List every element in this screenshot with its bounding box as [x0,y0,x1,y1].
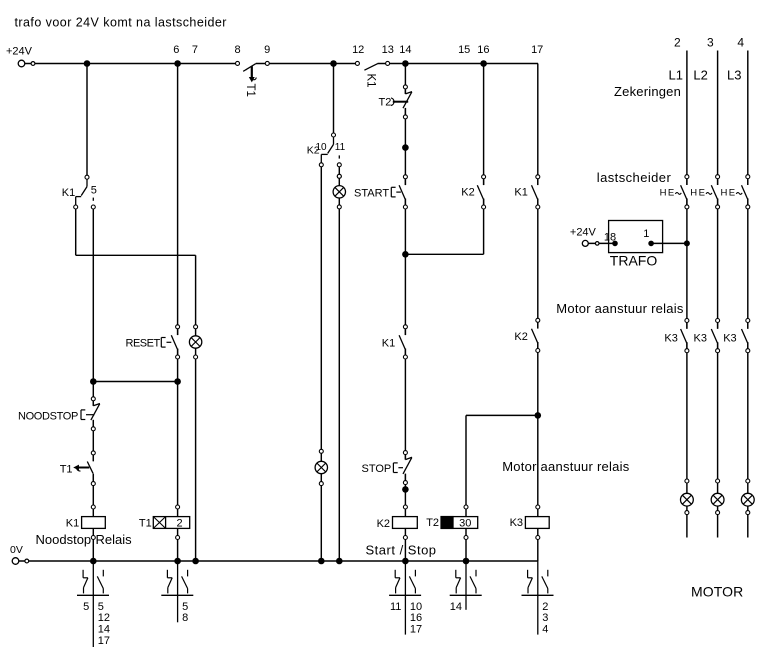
junction trafo-L1 [684,240,690,246]
svg-text:L3: L3 [727,68,741,83]
svg-text:START: START [354,187,389,199]
junction top rail x=405.4 [402,60,409,67]
trafo pin 18 dot [612,241,618,247]
svg-text:H: H [690,188,697,199]
svg-text:+24V: +24V [6,45,33,57]
svg-text:5: 5 [83,601,89,613]
contact K3 phase 1 [681,319,689,353]
svg-text:7: 7 [192,44,198,56]
junction bottom rail x=321.3 [318,558,325,565]
svg-text:11: 11 [335,142,346,153]
svg-text:13: 13 [382,44,394,56]
motor lamp L2 [711,479,724,515]
lamp branch-10 [315,449,327,485]
pushbutton symbol START [391,187,401,197]
svg-text:E: E [729,188,735,199]
svg-text:3: 3 [707,35,714,49]
svg-text:3: 3 [542,612,548,624]
junction noodstop/reset right [174,378,181,385]
svg-text:E: E [668,188,674,199]
svg-text:10: 10 [316,142,328,153]
svg-text:14: 14 [98,624,110,636]
lastscheider HE~ symbol [660,188,682,199]
svg-text:T1: T1 [244,84,256,97]
junction bottom rail x=466 [463,558,470,565]
junction bottom rail x=405.4 [402,558,409,565]
svg-text:16: 16 [477,44,489,56]
svg-text:17: 17 [531,44,543,56]
svg-text:0V: 0V [10,544,23,556]
svg-text:11: 11 [390,601,401,613]
contact K3 phase 2 [711,319,719,353]
svg-text:5: 5 [91,184,97,196]
svg-text:5: 5 [182,601,188,613]
svg-text:14: 14 [450,601,462,613]
svg-text:E: E [699,188,705,199]
pushbutton symbol STOP [393,463,403,473]
contact K1 on rail (nodes 12-13) [355,61,389,70]
svg-text:14: 14 [399,44,411,56]
contact NOODSTOP (NC pushbutton) [91,397,100,431]
svg-text:4: 4 [542,624,548,636]
wire: main noodstop column x=93.3 [92,207,94,561]
wire: horizontal y=415.4 to T2 coil [466,414,538,416]
svg-text:12: 12 [352,44,364,56]
svg-text:T1: T1 [139,518,152,530]
lastscheider switch L2 [711,175,719,209]
contact K3 phase 3 [742,319,750,353]
contact mirror K1 [77,561,110,647]
svg-text:RESET: RESET [126,338,161,350]
svg-text:12: 12 [98,612,110,624]
lastscheider HE~ symbol [721,188,743,199]
relay coil K1 [82,505,106,540]
contact K2 holding (NO) [477,175,485,209]
contact mirror K3 [522,561,554,636]
motor lamp L1 [681,479,694,515]
TRAFO box [609,221,663,253]
svg-text:NOODSTOP: NOODSTOP [18,410,78,422]
terminal 0V left [12,558,19,565]
wire: branch10 column x=321.3 [320,165,322,561]
svg-text:Relais: Relais [96,532,133,547]
junction bottom rail x=93.3 [90,558,97,565]
svg-text:17: 17 [410,624,422,636]
trafo pin 1 dot [648,241,654,247]
changeover contact K2 10/11 [319,133,341,167]
svg-text:Noodstop: Noodstop [36,532,92,547]
svg-text:K1: K1 [365,74,377,88]
wire: T2 coil column x=466 [465,415,467,561]
svg-text:18: 18 [604,232,616,244]
junction noodstop/reset left [90,378,97,385]
junction top rail x=87 [84,60,91,67]
lastscheider switch L1 [681,175,689,209]
wire: +24V top rail [25,63,538,65]
wire: column node6 x=177.5 [177,64,179,562]
svg-text:16: 16 [410,612,422,624]
svg-text:TRAFO: TRAFO [610,253,658,269]
wire: phase L2 [717,51,719,538]
extra terminal + lamp on branch 11 [337,174,341,178]
junction dot isolated on start column [402,144,409,151]
T2 delay cup symbol [391,98,408,106]
svg-text:2: 2 [542,601,548,613]
svg-text:K1: K1 [66,518,79,530]
svg-text:+24V: +24V [570,227,597,239]
junction top rail x=333.5 [330,60,337,67]
svg-text:1: 1 [643,228,649,240]
svg-text:2: 2 [674,35,681,49]
wire: horizontal y=254.3 [405,253,483,255]
svg-text:K1: K1 [62,187,75,199]
svg-text:9: 9 [264,44,270,56]
svg-text:8: 8 [182,612,188,624]
svg-text:H: H [660,188,667,199]
wire: K1 fork feed x=87 [86,64,88,178]
svg-text:Zekeringen: Zekeringen [614,84,681,99]
junction K2/T2 feed [535,412,542,419]
lastscheider HE~ symbol [690,188,712,199]
wire: right column x=537.8 [537,64,539,562]
pushbutton symbol NOODSTOP [81,410,95,420]
svg-text:6: 6 [173,44,179,56]
svg-text:MOTOR: MOTOR [691,583,743,599]
wire: branch11 column x=339.3 [338,165,340,561]
pushbutton symbol RESET [161,338,171,348]
junction top rail x=177.6 [174,60,181,67]
wire: phase L1 [686,51,688,538]
svg-text:K3: K3 [723,333,736,345]
wire: horizontal y=381.5 reset join [93,381,177,383]
svg-text:30: 30 [459,518,471,530]
svg-text:K3: K3 [694,333,707,345]
wire: K2 fork feed x=333.5 [333,64,335,136]
changeover contact K1 / 5 [74,175,96,209]
lastscheider switch L3 [742,175,750,209]
wire: K2 holding branch x=483.6 [483,64,485,255]
contact START (NO pushbutton) [399,175,407,209]
svg-text:STOP: STOP [362,463,392,475]
contact mirror T1 [161,561,193,624]
timer coil T1 with box 2 [153,505,189,540]
svg-text:Motor aanstuur relais: Motor aanstuur relais [502,459,630,474]
contact T1 on rail (nodes 8-9, delayed) [236,61,270,81]
svg-text:T2: T2 [426,517,439,529]
wire: horizontal y=255.3 to lamp column [76,254,196,256]
wire: start/stop column x=405.4 [404,64,406,562]
terminal +24V left [18,60,25,67]
svg-text:5: 5 [98,601,104,613]
svg-text:Motor aanstuur relais: Motor aanstuur relais [556,301,684,316]
svg-text:K2: K2 [514,331,527,343]
svg-text:T1: T1 [60,463,73,475]
wire trafo output to L1 [651,242,687,244]
junction start/holding [402,251,409,258]
contact T2 (NC off-delay) [403,85,412,119]
svg-text:K3: K3 [664,333,677,345]
svg-text:L1: L1 [669,68,683,83]
relay coil K3 [525,505,549,540]
svg-text:H: H [721,188,728,199]
contact RESET (NO pushbutton) [171,325,179,359]
svg-text:K1: K1 [514,187,527,199]
wire: lamp column x=195.6 [195,255,197,561]
junction bottom rail x=339.3 [336,558,343,565]
junction dot below STOP [402,486,409,493]
trafo terminal +24V [588,242,615,244]
lamp reset-indicator [189,325,201,359]
svg-text:trafo voor 24V komt na lastsch: trafo voor 24V komt na lastscheider [15,15,227,29]
junction top rail x=483.6 [480,60,487,67]
lamp start-indicator [333,174,345,209]
contact mirror K2 [389,561,422,636]
svg-text:K1: K1 [382,338,395,350]
svg-text:10: 10 [410,601,422,613]
contact K1 middle (NO) [399,325,407,359]
svg-text:L2: L2 [693,68,707,83]
svg-text:8: 8 [234,44,240,56]
svg-text:15: 15 [458,44,470,56]
junction bottom rail x=195.6 [192,558,199,565]
wire: K1-NC branch x=75.7 down [75,207,77,256]
svg-text:K3: K3 [510,517,523,529]
svg-text:K2: K2 [461,187,474,199]
contact K2 right (NO) [532,318,540,352]
svg-text:17: 17 [98,635,110,647]
svg-text:Start / Stop: Start / Stop [366,542,437,557]
contact mirror T2 [450,561,482,613]
junction bottom rail x=177.6 [174,558,181,565]
svg-text:lastscheider: lastscheider [597,170,672,185]
svg-text:T2: T2 [379,96,392,108]
wire: phase L3 [747,51,749,538]
contact K1 right (NO) [532,175,540,209]
timer coil T2 with black box 30 [441,505,478,540]
contact STOP (NC pushbutton) [403,451,412,485]
svg-text:K2: K2 [377,518,390,530]
wire: 0V bottom rail [19,560,538,562]
relay coil K2 [393,505,418,540]
svg-text:2: 2 [176,518,182,530]
svg-text:4: 4 [737,35,744,49]
motor lamp L3 [741,479,754,515]
contact T1 timer (NO, delayed release) [74,451,95,486]
